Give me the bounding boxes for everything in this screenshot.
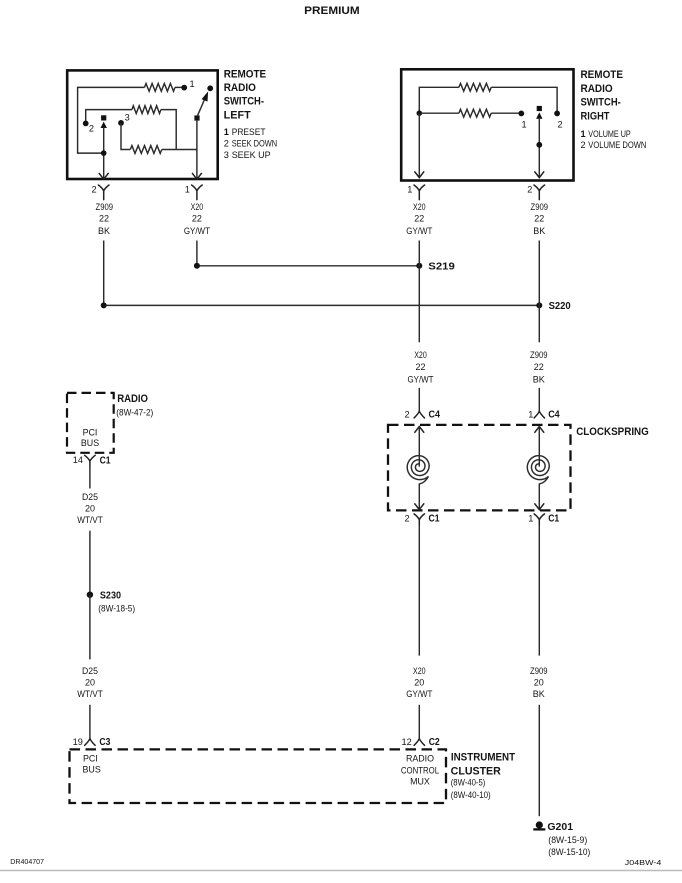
clockspring coil right bbox=[527, 456, 549, 480]
svg-text:2: 2 bbox=[558, 119, 563, 129]
svg-text:20: 20 bbox=[85, 504, 95, 514]
clockspring dashed box bbox=[388, 425, 571, 511]
svg-text:X20: X20 bbox=[413, 202, 426, 212]
remote radio switch-left box outline bbox=[67, 70, 218, 179]
svg-text:VOLUME UP: VOLUME UP bbox=[588, 129, 630, 139]
resistor R5 right-box lower bbox=[421, 109, 491, 117]
svg-text:C1: C1 bbox=[100, 455, 111, 466]
splice dot S230 bbox=[87, 592, 93, 598]
svg-text:1: 1 bbox=[185, 185, 190, 195]
svg-text:BK: BK bbox=[533, 689, 545, 699]
svg-text:CONTROL: CONTROL bbox=[401, 765, 439, 775]
svg-text:PREMIUM: PREMIUM bbox=[304, 5, 360, 17]
switch contact square right common bbox=[194, 115, 199, 120]
label REMOTE RADIO SWITCH-RIGHT bbox=[581, 69, 624, 122]
resistor R2 left-box middle bbox=[132, 106, 161, 114]
svg-text:SEEK DOWN: SEEK DOWN bbox=[232, 139, 278, 149]
wire common square down to pin 1 exit bbox=[196, 121, 198, 179]
wire label X20 22 GY/WT mid bbox=[407, 350, 434, 385]
svg-text:C4: C4 bbox=[548, 410, 560, 421]
connector fork C1 pin 1 clockspring bbox=[534, 514, 544, 525]
wire left X20 down to splice S219 bbox=[196, 241, 198, 266]
svg-text:C4: C4 bbox=[429, 410, 441, 421]
wire S220 horizontal bbox=[104, 304, 540, 306]
exit arrowhead down right bbox=[535, 504, 544, 510]
wire into right coil bbox=[538, 427, 540, 467]
node 1 contact dot bbox=[181, 85, 187, 91]
connector fork C1 radio pin 14 bbox=[85, 455, 96, 466]
label PCI BUS cluster bbox=[83, 753, 101, 774]
svg-text:1: 1 bbox=[528, 410, 533, 420]
wire label Z909 22 BK bbox=[96, 202, 114, 236]
svg-text:X20: X20 bbox=[414, 350, 427, 360]
wire into left coil bbox=[418, 427, 420, 467]
svg-text:1: 1 bbox=[190, 79, 195, 89]
radio dashed box bbox=[67, 393, 114, 453]
wire X20 to clockspring C4 bbox=[418, 388, 420, 412]
svg-text:1: 1 bbox=[224, 127, 229, 137]
svg-text:2: 2 bbox=[581, 140, 586, 150]
junction node dot right box bbox=[417, 110, 423, 116]
svg-text:22: 22 bbox=[99, 214, 109, 224]
svg-text:C3: C3 bbox=[99, 737, 110, 748]
pin 2 exit arrowhead at box edge bbox=[99, 173, 108, 179]
svg-text:BUS: BUS bbox=[81, 438, 99, 448]
wire label Z909 20 BK lower bbox=[530, 666, 548, 699]
wiper arrowhead pointing up bbox=[101, 122, 107, 128]
svg-text:D25: D25 bbox=[82, 666, 98, 676]
svg-text:22: 22 bbox=[192, 214, 202, 224]
svg-text:22: 22 bbox=[414, 214, 424, 224]
exit arrowhead down left bbox=[415, 504, 424, 510]
wire label X20 22 GY/WT right bbox=[406, 202, 433, 236]
svg-text:3: 3 bbox=[125, 112, 130, 122]
wire coil exit right bbox=[539, 476, 548, 509]
wire D25 to cluster C3 bbox=[89, 705, 91, 739]
svg-text:VOLUME DOWN: VOLUME DOWN bbox=[588, 140, 646, 150]
wire resistor R4 to node 2 bbox=[491, 87, 557, 111]
svg-text:Z909: Z909 bbox=[530, 666, 548, 676]
clockspring coil left bbox=[407, 456, 429, 480]
svg-text:GY/WT: GY/WT bbox=[407, 375, 434, 385]
svg-text:BK: BK bbox=[533, 375, 545, 385]
instrument cluster dashed box bbox=[70, 749, 447, 803]
svg-text:20: 20 bbox=[414, 678, 424, 688]
svg-text:CLUSTER: CLUSTER bbox=[451, 766, 501, 778]
switch contact square left (wiper target) bbox=[101, 115, 106, 120]
pin 1 exit arrowhead at box edge bbox=[192, 173, 201, 179]
splice dot S220 right bbox=[536, 302, 542, 308]
svg-text:REMOTE: REMOTE bbox=[224, 68, 267, 80]
svg-text:D25: D25 bbox=[82, 492, 98, 502]
svg-text:C1: C1 bbox=[429, 513, 440, 524]
connector fork C4 pin 2 bbox=[414, 411, 424, 418]
svg-text:2: 2 bbox=[92, 185, 97, 195]
svg-text:PCI: PCI bbox=[83, 753, 98, 763]
svg-text:Z909: Z909 bbox=[531, 202, 549, 212]
svg-text:BK: BK bbox=[533, 226, 545, 236]
svg-text:1: 1 bbox=[407, 185, 412, 195]
wire label Z909 22 BK right bbox=[531, 202, 549, 236]
svg-text:WT/VT: WT/VT bbox=[77, 689, 103, 699]
svg-text:J04BW-4: J04BW-4 bbox=[625, 858, 662, 867]
svg-text:DR404707: DR404707 bbox=[10, 857, 44, 866]
wire coil exit left bbox=[419, 476, 428, 509]
node 2 contact dot bbox=[83, 121, 89, 127]
entry arrowhead up left bbox=[415, 427, 424, 433]
svg-text:1: 1 bbox=[581, 129, 586, 139]
wire label X20 20 GY/WT lower bbox=[406, 666, 433, 699]
svg-text:(8W-40-10): (8W-40-10) bbox=[451, 790, 491, 800]
wire label D25 20 WT/VT lower bbox=[77, 666, 103, 699]
connector fork C1 pin 2 clockspring bbox=[414, 514, 424, 525]
svg-text:X20: X20 bbox=[413, 666, 426, 676]
connector fork C4 pin 1 bbox=[534, 411, 544, 418]
label PCI BUS radio bbox=[81, 427, 99, 448]
svg-text:2: 2 bbox=[224, 139, 229, 149]
svg-text:(8W-47-2): (8W-47-2) bbox=[116, 408, 153, 418]
wire node 2 to resistor R2 bbox=[86, 110, 132, 124]
switch wiper arm diagonal bbox=[197, 100, 204, 116]
junction node dot bbox=[101, 150, 107, 156]
label REMOTE RADIO SWITCH-LEFT bbox=[224, 68, 267, 121]
node 1 contact dot right box bbox=[518, 111, 524, 117]
pin 2 connector fork right box bbox=[534, 185, 545, 200]
wire S219 horizontal bbox=[197, 265, 419, 267]
wiper arrowhead pointing up right box bbox=[536, 112, 542, 118]
svg-text:1: 1 bbox=[528, 513, 533, 523]
svg-text:LEFT: LEFT bbox=[224, 110, 252, 122]
wire wiper down through pivot to pin 2 exit bbox=[538, 118, 540, 178]
node 2 contact dot right box bbox=[554, 111, 560, 117]
svg-text:WT/VT: WT/VT bbox=[77, 515, 103, 525]
svg-text:BUS: BUS bbox=[83, 765, 101, 775]
wire wiper to junction and pin 2 exit bbox=[103, 127, 105, 179]
svg-text:(8W-15-9): (8W-15-9) bbox=[548, 835, 587, 845]
wire Z909 to ground bbox=[538, 705, 540, 816]
svg-text:CLOCKSPRING: CLOCKSPRING bbox=[576, 426, 649, 438]
svg-text:Z909: Z909 bbox=[96, 202, 114, 212]
svg-text:2: 2 bbox=[405, 410, 410, 420]
svg-text:PRESET: PRESET bbox=[232, 127, 266, 137]
svg-text:SWITCH-: SWITCH- bbox=[581, 97, 622, 109]
svg-text:3: 3 bbox=[224, 150, 229, 160]
svg-text:Z909: Z909 bbox=[530, 350, 548, 360]
wire Z909 below clockspring bbox=[538, 525, 540, 656]
pivot node dot bbox=[536, 142, 542, 148]
svg-text:14: 14 bbox=[73, 455, 83, 465]
pin 1 connector fork right box bbox=[414, 185, 425, 200]
svg-text:1: 1 bbox=[522, 119, 527, 129]
svg-text:22: 22 bbox=[534, 214, 544, 224]
svg-text:PCI: PCI bbox=[83, 427, 98, 437]
wire node 3 down to resistor R3 bbox=[121, 123, 130, 150]
svg-text:RIGHT: RIGHT bbox=[581, 110, 610, 122]
node 3 contact dot bbox=[118, 120, 124, 126]
svg-text:G201: G201 bbox=[547, 822, 573, 833]
wire D25 below S230 bbox=[89, 595, 91, 660]
svg-text:(8W-15-10): (8W-15-10) bbox=[548, 847, 590, 857]
svg-text:20: 20 bbox=[85, 678, 95, 688]
pin 2 connector fork bbox=[98, 185, 109, 200]
wire X20 below clockspring bbox=[418, 525, 420, 656]
wire bottom rail to pin1 corner bbox=[162, 149, 197, 151]
svg-text:RADIO: RADIO bbox=[117, 393, 148, 405]
svg-text:RADIO: RADIO bbox=[581, 83, 613, 95]
svg-text:GY/WT: GY/WT bbox=[184, 226, 211, 236]
wire label Z909 22 BK mid bbox=[530, 350, 548, 385]
connector fork C2 pin 12 bbox=[414, 739, 424, 746]
svg-text:22: 22 bbox=[534, 362, 544, 372]
svg-text:REMOTE: REMOTE bbox=[581, 69, 624, 81]
svg-text:22: 22 bbox=[415, 362, 425, 372]
svg-text:2: 2 bbox=[89, 123, 94, 133]
label RADIO CONTROL MUX bbox=[401, 753, 439, 786]
ground G201 bar bbox=[533, 828, 545, 830]
svg-text:2: 2 bbox=[527, 185, 532, 195]
svg-text:SWITCH-: SWITCH- bbox=[224, 96, 265, 108]
svg-text:S220: S220 bbox=[549, 301, 571, 312]
wire X20 to cluster C2 bbox=[418, 705, 420, 739]
wire Z909 from S220 down bbox=[538, 241, 540, 343]
svg-text:12: 12 bbox=[402, 737, 412, 747]
wire resistor R2 right end down to bottom rail bbox=[161, 110, 176, 150]
switch open contact dot top right bbox=[207, 85, 213, 91]
svg-text:RADIO: RADIO bbox=[224, 82, 256, 94]
entry arrowhead up right bbox=[535, 427, 544, 433]
resistor R3 left-box bottom bbox=[130, 146, 162, 154]
wiper arrowhead diagonal bbox=[202, 91, 209, 101]
svg-text:RADIO: RADIO bbox=[406, 753, 434, 763]
svg-text:C1: C1 bbox=[548, 513, 559, 524]
wire label X20 22 GY/WT bbox=[184, 202, 211, 236]
svg-text:SEEK UP: SEEK UP bbox=[232, 150, 271, 160]
svg-text:X20: X20 bbox=[191, 202, 204, 212]
resistor R4 right-box top bbox=[459, 83, 491, 91]
footer rule bbox=[0, 870, 682, 872]
pin 1 connector fork bbox=[192, 185, 203, 200]
switch contact square right box bbox=[537, 106, 542, 111]
svg-text:C2: C2 bbox=[429, 737, 440, 748]
svg-text:(8W-40-5): (8W-40-5) bbox=[451, 778, 486, 788]
connector fork C3 pin 19 bbox=[85, 739, 95, 746]
resistor R1 left-box top bbox=[145, 84, 176, 92]
wire label D25 20 WT/VT upper bbox=[77, 492, 103, 525]
wire D25 radio down bbox=[89, 466, 91, 489]
wire pin 1 vertical right box bbox=[418, 113, 420, 177]
svg-text:GY/WT: GY/WT bbox=[406, 689, 433, 699]
svg-text:GY/WT: GY/WT bbox=[406, 226, 433, 236]
svg-text:2: 2 bbox=[405, 513, 410, 523]
wire resistor R1 to node 1 bbox=[175, 86, 184, 88]
svg-text:19: 19 bbox=[73, 737, 83, 747]
wire right-box top loop bbox=[419, 87, 459, 113]
wire left Z909 down to splice S220 bbox=[103, 241, 105, 306]
wire Z909 to clockspring C4 bbox=[538, 388, 540, 412]
splice dot S220 left bbox=[101, 302, 107, 308]
wire D25 to S230 bbox=[89, 531, 91, 595]
svg-text:MUX: MUX bbox=[410, 777, 430, 787]
splice dot S219 right bbox=[416, 263, 422, 269]
svg-text:INSTRUMENT: INSTRUMENT bbox=[451, 751, 516, 763]
wire resistor R5 to node 1 bbox=[491, 112, 521, 114]
wire left-box loop from top resistor to junction bbox=[78, 87, 145, 153]
wire X20 from S219 down bbox=[418, 241, 420, 343]
svg-text:BK: BK bbox=[98, 226, 110, 236]
remote radio switch-right box outline bbox=[401, 69, 573, 180]
svg-text:S219: S219 bbox=[428, 262, 455, 273]
splice dot S219 left bbox=[194, 263, 200, 269]
pin 2 exit arrowhead right box bbox=[535, 172, 544, 178]
ground G201 dot bbox=[536, 821, 543, 828]
svg-text:20: 20 bbox=[534, 678, 544, 688]
svg-text:S230: S230 bbox=[100, 591, 121, 602]
svg-text:(8W-18-5): (8W-18-5) bbox=[98, 603, 135, 613]
pin 1 exit arrowhead right box bbox=[415, 172, 424, 178]
